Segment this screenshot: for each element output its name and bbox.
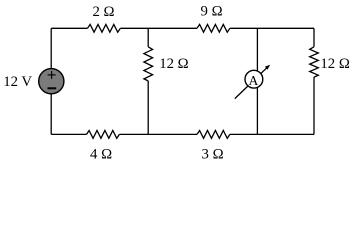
ammeter body (circle)	[245, 70, 263, 88]
resistor 9Ω (top right, horizontal zigzag)	[197, 24, 230, 32]
wire: top wire, left segment (top-left corner to 2Ω)	[51, 27, 87, 29]
svg-text:12 V: 12 V	[3, 74, 32, 90]
wire: right branch upper stub (top-right corner down to 12Ω)	[313, 28, 315, 47]
resistor 12Ω (right, vertical zigzag)	[310, 47, 319, 77]
wire: bottom wire, middle junction to 3Ω	[148, 133, 197, 135]
plus sign of source	[48, 74, 56, 76]
wire: middle branch upper stub	[147, 28, 149, 47]
wire: bottom wire, 3Ω to ammeter junction	[230, 133, 258, 135]
ammeter arrow shaft (diagonal)	[235, 66, 269, 98]
wire: top wire, segment from 2Ω to middle junction	[120, 27, 148, 29]
svg-text:12 Ω: 12 Ω	[159, 56, 189, 72]
wire: right branch lower segment	[313, 77, 315, 134]
resistor 2Ω (top left, horizontal zigzag)	[88, 24, 121, 32]
wire: ammeter branch (full vertical)	[256, 28, 258, 134]
svg-text:2 Ω: 2 Ω	[92, 4, 114, 20]
svg-text:9 Ω: 9 Ω	[201, 4, 223, 20]
wire: bottom wire, segment from bottom-left to 4Ω	[51, 133, 86, 135]
voltage source 12 V (circle with + -)	[39, 69, 64, 94]
wire: top wire, segment from 9Ω to ammeter branch junction	[230, 27, 258, 29]
wire: left branch lower segment (source to bottom-left corner)	[50, 94, 52, 135]
wire: bottom wire, ammeter junction to bottom-right corner	[257, 133, 314, 135]
ammeter arrowhead	[265, 65, 270, 70]
wire: bottom wire, 4Ω to middle junction	[119, 133, 148, 135]
svg-text:4 Ω: 4 Ω	[90, 146, 112, 162]
wire: top wire, segment from middle junction to 9Ω	[148, 27, 197, 29]
svg-text:A: A	[248, 73, 258, 88]
svg-text:12 Ω: 12 Ω	[320, 56, 350, 72]
minus sign of source	[48, 87, 57, 89]
wire: middle branch lower segment	[147, 81, 149, 134]
resistor 12Ω (middle, vertical zigzag)	[144, 47, 153, 81]
wire: left branch upper segment (top-left corner down to source)	[50, 28, 52, 68]
svg-text:3 Ω: 3 Ω	[202, 146, 224, 162]
resistor 4Ω (bottom left, horizontal zigzag)	[87, 131, 120, 139]
resistor 3Ω (bottom right, horizontal zigzag)	[197, 131, 230, 139]
wire: top wire, segment from ammeter junction to top-right corner	[257, 27, 314, 29]
